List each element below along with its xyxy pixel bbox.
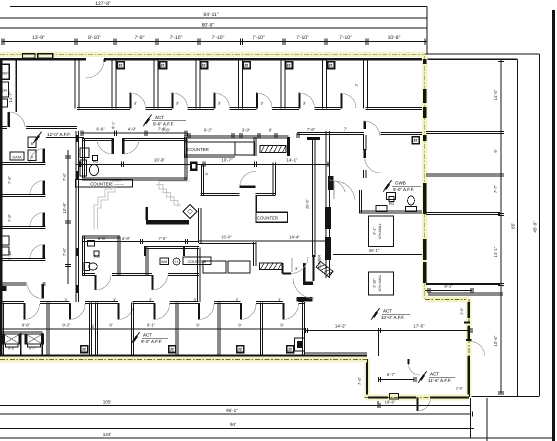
svg-text:J2: J2 (160, 63, 164, 67)
svg-text:COUNTER: COUNTER (90, 182, 112, 187)
ACT 11'-6" note (418, 371, 426, 383)
dim 14'-2" / 17'-6" (306, 329, 471, 331)
svg-text:3': 3' (261, 102, 264, 106)
bottom exterior wall (0, 354, 367, 356)
svg-text:30'-1": 30'-1" (369, 248, 380, 253)
svg-text:13'-9": 13'-9" (32, 35, 45, 41)
svg-text:7'-6": 7'-6" (7, 175, 12, 184)
svg-text:14'-4": 14'-4" (289, 235, 300, 240)
big door arc to waiting (293, 279, 314, 299)
svg-text:7'-6": 7'-6" (7, 213, 12, 222)
svg-text:3': 3' (65, 298, 68, 302)
svg-text:J2: J2 (328, 63, 332, 67)
6'-7" room (379, 379, 415, 381)
central vertical wall x202.6 (201, 165, 203, 196)
svg-text:11'-6" A.F.F.: 11'-6" A.F.F. (428, 378, 451, 383)
PT room west wall x367 below corridor (363, 135, 365, 150)
extension south wall (365, 395, 470, 401)
svg-text:3'-10": 3'-10" (373, 278, 377, 288)
svg-text:WM: WM (161, 260, 167, 264)
svg-text:7'-10": 7'-10" (296, 35, 309, 41)
east corridor wall x328 with interior windows (325, 131, 327, 278)
bottom overall dimension line 105' (0, 405, 471, 407)
svg-text:J2: J2 (413, 139, 417, 143)
svg-text:7'-10": 7'-10" (170, 35, 183, 41)
svg-text:10'-9": 10'-9" (62, 202, 67, 213)
svg-text:9'-2": 9'-2" (204, 128, 213, 133)
svg-text:65': 65' (511, 223, 516, 229)
bottom dim line (2, 328, 304, 330)
ceiling note 12'-0" A.F.F. (33, 132, 41, 144)
lower toilet block dim line (82, 241, 199, 243)
GWB bathroom (383, 180, 391, 192)
svg-text:ACT: ACT (430, 372, 439, 377)
svg-text:7'-10": 7'-10" (339, 35, 352, 41)
svg-text:ACT: ACT (383, 309, 392, 314)
svg-text:10'-7": 10'-7" (221, 158, 233, 163)
right wing dim line x501 (500, 59, 502, 393)
bottom wall of upper toilet block (82, 177, 187, 179)
svg-text:2'-6": 2'-6" (456, 387, 464, 391)
svg-text:7'-10": 7'-10" (212, 35, 225, 41)
main corridor west wall (75, 131, 77, 302)
svg-text:8'-1": 8'-1" (112, 121, 116, 129)
svg-text:3': 3' (113, 298, 116, 302)
svg-text:26'-9": 26'-9" (306, 199, 310, 209)
exam room divider walls (top row) (74, 61, 76, 109)
break room casework left column: REF etc (1, 64, 10, 79)
upper cabinets on top wall (23, 54, 35, 58)
svg-text:7'-5": 7'-5" (158, 236, 167, 241)
svg-text:J2: J2 (286, 63, 290, 67)
svg-text:ACT: ACT (155, 115, 164, 120)
central vertical wall x274 (272, 163, 274, 196)
extension west wall from exam rooms (364, 359, 370, 397)
reception counters (203, 261, 226, 273)
svg-text:9'-1": 9'-1" (147, 322, 156, 327)
svg-text:COUNTER: COUNTER (188, 260, 207, 264)
svg-text:14'-2": 14'-2" (335, 324, 347, 329)
60% wall rooms (369, 216, 394, 247)
reception north wall y242 (199, 240, 256, 242)
door leaf + arc in wall y194.5 (240, 186, 256, 188)
break room south wall with door (0, 125, 7, 127)
svg-text:3': 3' (355, 83, 359, 86)
svg-text:10'-8": 10'-8" (388, 35, 401, 41)
svg-text:3': 3' (205, 172, 209, 175)
svg-text:J2: J2 (118, 63, 122, 67)
svg-text:60%WALL: 60%WALL (378, 223, 382, 239)
svg-text:9'-6" A.F.F.: 9'-6" A.F.F. (153, 122, 174, 127)
sheet border right edge (552, 10, 555, 441)
svg-text:4'-9": 4'-9" (128, 127, 137, 132)
upper toilet block dim line (81, 132, 187, 134)
svg-text:7'-6": 7'-6" (357, 376, 362, 385)
svg-text:9': 9' (280, 322, 283, 327)
svg-text:7'-6": 7'-6" (307, 127, 316, 132)
door tags top rooms (117, 61, 126, 70)
left wing office dividers (0, 161, 46, 163)
black service box (190, 162, 198, 172)
dim line y254 (333, 254, 424, 256)
svg-text:12'-0" A.F.F.: 12'-0" A.F.F. (47, 132, 71, 137)
nurse station counter (185, 142, 236, 155)
svg-text:9'-0" A.F.F.: 9'-0" A.F.F. (393, 187, 414, 192)
top room dimension line with ticks (2, 41, 427, 43)
hatched shelf angled (316, 262, 333, 277)
svg-text:7': 7' (344, 127, 347, 132)
svg-text:J2: J2 (82, 347, 86, 351)
demising top wall with lease-line highlight (0, 51, 425, 57)
svg-text:A: A (31, 155, 34, 159)
svg-text:9'-2": 9'-2" (62, 322, 71, 327)
corridor north wall below top rooms, with door openings (77, 106, 114, 108)
central dim line 10'-8 / 10'-7 / 14'-1 (76, 163, 331, 165)
bottom-left shower stalls with X (2, 331, 43, 333)
hatched counter right of nurse station (260, 146, 286, 153)
svg-text:J2: J2 (288, 347, 292, 351)
svg-text:7'-7": 7'-7" (493, 184, 498, 193)
svg-text:84'-11": 84'-11" (203, 12, 218, 18)
svg-text:J2: J2 (170, 347, 174, 351)
waiting area stepped counters (light gray) (94, 181, 121, 229)
svg-text:6'-7": 6'-7" (387, 372, 396, 377)
svg-text:9': 9' (238, 322, 241, 327)
svg-text:60% WALL: 60% WALL (378, 274, 382, 291)
top overall dimension line 127'-8" (10, 6, 427, 8)
svg-text:COUNTER: COUNTER (257, 216, 278, 221)
waiting area black guard wall (145, 207, 148, 220)
svg-text:3': 3' (149, 298, 152, 302)
lease line vertical x424.7 (422, 56, 428, 299)
svg-text:4'-0": 4'-0" (8, 347, 16, 351)
left corridor dim line (67, 150, 69, 284)
bottom dimension line 95'-1" (0, 413, 470, 415)
svg-text:9': 9' (196, 322, 199, 327)
svg-text:45'-9": 45'-9" (533, 221, 538, 233)
svg-text:9'-6": 9'-6" (22, 322, 31, 327)
svg-text:ACT: ACT (143, 333, 152, 338)
svg-text:3': 3' (303, 102, 306, 106)
svg-text:9': 9' (493, 149, 498, 152)
svg-text:9'-0" A.F.F.: 9'-0" A.F.F. (141, 339, 162, 344)
toilet room fixtures (80, 148, 89, 158)
svg-text:6'-7": 6'-7" (29, 347, 37, 351)
top dimension line 80'-8" (0, 27, 427, 29)
svg-text:8'-10": 8'-10" (88, 35, 101, 41)
svg-text:3': 3' (218, 102, 221, 106)
svg-text:COUNTER: COUNTER (187, 147, 209, 152)
corridor wall segment y133 over x297-326 (297, 131, 364, 133)
lease line turns (425, 297, 469, 303)
WM + H + COUNTER (160, 258, 169, 265)
svg-text:7'-10": 7'-10" (252, 35, 265, 41)
svg-text:9'-1": 9'-1" (444, 284, 453, 289)
svg-text:10'-6": 10'-6" (493, 335, 498, 346)
counter below upper toilet block (76, 180, 133, 188)
svg-text:7'-6": 7'-6" (62, 247, 67, 256)
door arc into bathroom corridor (334, 181, 355, 200)
right wing dividers (426, 130, 500, 132)
corridor wall y133 x366-425 (381, 131, 426, 133)
svg-text:105': 105' (103, 399, 112, 404)
break room counter front edge (15, 61, 17, 113)
svg-text:6'-6": 6'-6" (96, 127, 105, 132)
wall stub x313 (313, 255, 315, 281)
bottom room dividers (0, 303, 2, 356)
svg-text:REF: REF (1, 72, 9, 76)
wall x303 (301, 302, 303, 356)
svg-text:14'-5": 14'-5" (493, 89, 498, 100)
ACT 10'-0" note (371, 308, 379, 320)
svg-text:3': 3' (176, 102, 179, 106)
counter room wall H1 (184, 135, 289, 137)
svg-text:7'-6": 7'-6" (62, 172, 67, 181)
svg-text:2'-6": 2'-6" (460, 307, 464, 315)
svg-text:H: H (175, 260, 178, 264)
overall right dims (517, 59, 519, 396)
svg-text:J2: J2 (238, 347, 242, 351)
svg-text:80'-8": 80'-8" (202, 23, 215, 29)
svg-text:14'-7": 14'-7" (8, 91, 13, 102)
bottom dim extension verticals (470, 398, 472, 438)
upper toilet block walls (82, 137, 112, 139)
svg-text:6': 6' (269, 128, 272, 133)
top wall continues over right wing (425, 53, 540, 55)
ACT 9'-0" note (131, 332, 139, 344)
svg-text:3': 3' (194, 298, 197, 302)
svg-text:10'-0" A.F.F.: 10'-0" A.F.F. (381, 315, 405, 320)
hall counter room (255, 196, 257, 213)
bottom door tags (80, 345, 89, 354)
bottom dimension line 94' (0, 428, 474, 430)
dim extension right jog (426, 7, 428, 55)
door from corridor into right room (363, 121, 366, 129)
svg-text:14'-1": 14'-1" (493, 246, 498, 257)
top dimension line 84'-11" (0, 17, 427, 19)
svg-text:19'-6": 19'-6" (385, 399, 396, 404)
svg-text:DATA: DATA (12, 156, 22, 160)
svg-text:94': 94' (230, 422, 236, 427)
svg-text:10'-8": 10'-8" (154, 158, 166, 163)
svg-text:3': 3' (278, 298, 281, 302)
signing kiosk diamond (183, 205, 197, 219)
DATA box and closet boxes (10, 152, 24, 160)
ceiling note ACT 9'-6" (143, 115, 151, 127)
svg-text:7'-8": 7'-8" (135, 35, 145, 41)
reception wall jog + door (282, 263, 284, 274)
svg-text:OM: OM (2, 89, 7, 93)
svg-text:95'-1": 95'-1" (226, 408, 238, 413)
svg-text:3': 3' (134, 102, 137, 106)
bottom dimension line 144' (0, 437, 554, 439)
extension north wall (425, 289, 472, 291)
central wall y194.5 (201, 192, 240, 194)
svg-text:144': 144' (103, 432, 112, 437)
svg-text:17'-6": 17'-6" (413, 324, 425, 329)
svg-text:7'-6": 7'-6" (162, 128, 171, 133)
svg-text:9': 9' (109, 322, 112, 327)
svg-text:GWB: GWB (395, 181, 406, 186)
svg-text:J2: J2 (244, 63, 248, 67)
svg-text:3': 3' (236, 298, 239, 302)
cabinets col x0 y236 (1, 236, 9, 245)
svg-text:6'-1": 6'-1" (373, 227, 377, 235)
svg-text:3'-9": 3'-9" (242, 128, 251, 133)
svg-text:14'-1": 14'-1" (286, 158, 298, 163)
svg-text:4'-9": 4'-9" (122, 236, 131, 241)
lower toilet block walls (82, 235, 120, 237)
svg-text:J2: J2 (201, 63, 205, 67)
room1 door (23, 303, 25, 320)
svg-text:15'-0": 15'-0" (221, 235, 232, 240)
door arc top-left room (86, 60, 104, 78)
bottom exam rooms north wall (2, 301, 24, 303)
left exterior wall (0, 59, 2, 360)
svg-text:127'-8": 127'-8" (95, 1, 111, 7)
svg-text:3': 3' (295, 267, 298, 271)
lower toilet block south wall + doors (82, 273, 95, 275)
